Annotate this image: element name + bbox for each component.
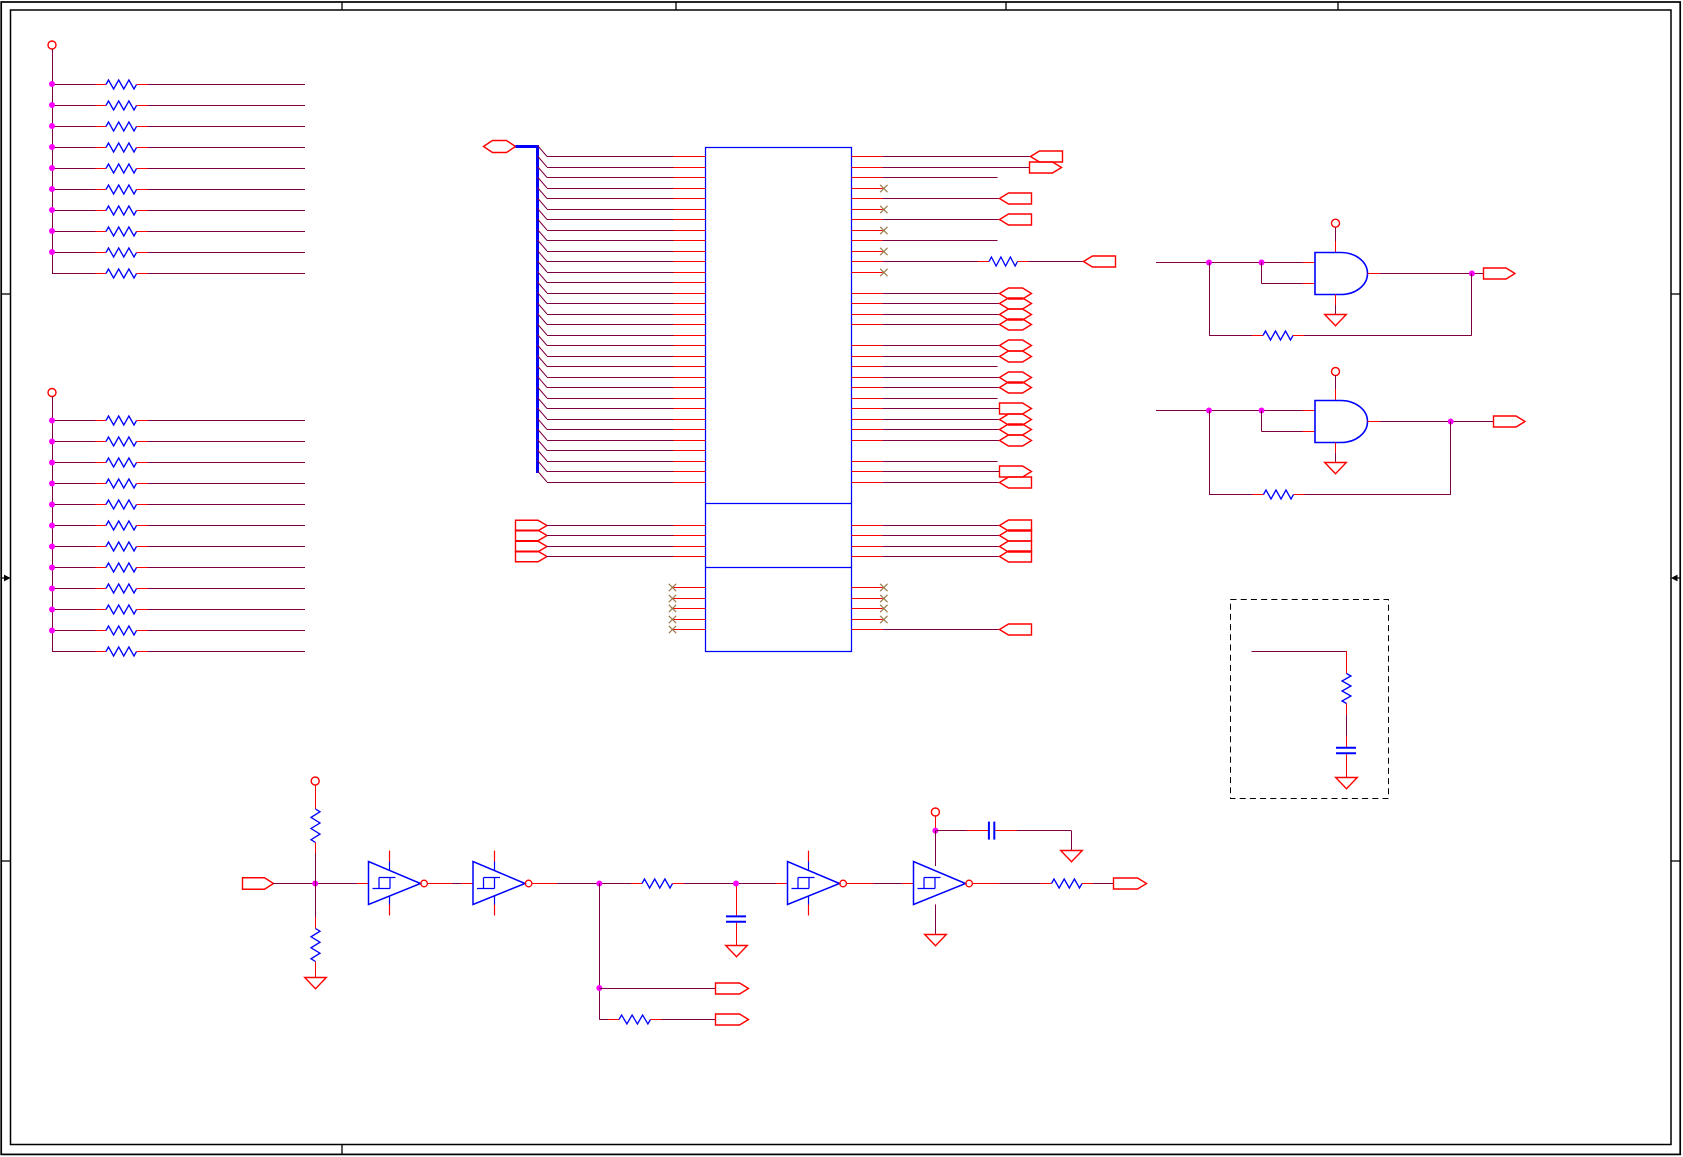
port mid-left 1 — [516, 520, 548, 531]
bus entry row 29 — [538, 440, 548, 451]
wire R31 to output port — [1093, 883, 1113, 885]
bus entry row 24 — [538, 387, 548, 398]
wire C2 to ground — [736, 923, 738, 946]
wire bank1 row 5 right — [148, 168, 306, 170]
bus entry row 14 — [538, 282, 548, 293]
pin U1 right 7 — [852, 219, 883, 221]
wire U1 bottom-right 5 — [883, 629, 1000, 631]
pin U1 left 29 — [674, 450, 706, 452]
wire U1 right pin 31 — [883, 471, 1000, 473]
port tap 1 — [716, 983, 749, 994]
pin U1 left 4 — [674, 188, 706, 190]
wire U1 left pin 17 — [547, 324, 674, 326]
no-connect U1 bottom-left 5 — [669, 626, 676, 633]
wire U1 left pin 29 — [547, 450, 674, 452]
resistor R9 — [96, 248, 148, 257]
wire U1 right pin 1 — [883, 156, 1031, 158]
bus B1 — [516, 145, 540, 473]
wire U1 right pin 27 — [883, 429, 1000, 431]
junction bank1 row 2 — [49, 102, 55, 108]
resistor R17 — [96, 542, 148, 551]
junction bank1 row 4 — [49, 144, 55, 150]
port right row 26 (bidir) — [1000, 414, 1032, 425]
resistor R1 — [96, 80, 148, 89]
pin U1 mid-left 3 — [674, 546, 706, 548]
wire mid-left 1 — [547, 525, 674, 527]
pin U1 right 16 — [852, 314, 883, 316]
wire U1 left pin 22 — [547, 377, 674, 379]
port right row 2 — [1030, 162, 1062, 173]
port bottom-right — [1000, 624, 1032, 635]
wire U2B to ground — [1335, 453, 1337, 463]
pin U1 bottom-left 3 — [674, 608, 706, 610]
resistor R4 — [96, 143, 148, 152]
bus entry row 17 — [538, 314, 548, 325]
bus entry row 5 — [538, 188, 548, 199]
pin U1 left 32 — [674, 482, 706, 484]
wire mid-left 2 — [547, 535, 674, 537]
wire U1 left pin 10 — [547, 251, 674, 253]
junction bank2 row 8 — [49, 565, 55, 571]
port right row 11 — [1084, 256, 1116, 267]
junction bank2 row 11 — [49, 628, 55, 634]
wire U1 left pin 2 — [547, 167, 674, 169]
pin U1 right 32 — [852, 482, 883, 484]
bus entry row 16 — [538, 303, 548, 314]
op-amp U2B (AND gate) — [1315, 401, 1368, 443]
pin U1 right 25 — [852, 408, 883, 410]
wire bank2 row 10 left — [52, 609, 96, 611]
inverter U3D (schmitt) — [914, 862, 973, 905]
wire U2B output net — [1380, 421, 1493, 423]
bus entry row 32 — [538, 471, 548, 482]
wire U1 left pin 7 — [547, 219, 674, 221]
pin U1 left 10 — [674, 251, 706, 253]
wire bank2 row 9 right — [148, 588, 306, 590]
pin U1 left 31 — [674, 471, 706, 473]
wire U1 right pin 26 — [883, 419, 1000, 421]
junction bank1 row 9 — [49, 249, 55, 255]
ground GND3 — [1336, 778, 1358, 789]
ground GND7 — [925, 935, 947, 946]
wire U1 left pin 28 — [547, 440, 674, 442]
bus entry row 30 — [538, 450, 548, 461]
pin U1 bottom-right 3 — [852, 608, 883, 610]
bus entry row 4 — [538, 177, 548, 188]
wire U1 left pin 11 — [547, 261, 674, 263]
wire U2A input net — [1156, 262, 1303, 264]
junction bank2 row 10 — [49, 607, 55, 613]
wire bank2 row 2 right — [148, 441, 306, 443]
power pin VCC1 — [48, 41, 56, 49]
pin U1 mid-left 2 — [674, 535, 706, 537]
wire bank2 row 7 left — [52, 546, 96, 548]
wire node to R28 — [315, 884, 317, 918]
pin U2B input 2 — [1303, 431, 1316, 433]
wire R27 to node — [315, 854, 317, 884]
pin U3D output — [973, 883, 1000, 885]
wire U2A to ground — [1335, 305, 1337, 315]
wire bank2 row 11 right — [148, 630, 306, 632]
resistor R12 — [96, 437, 148, 446]
wire R23 to port — [1029, 261, 1084, 263]
pin U1 left 14 — [674, 293, 706, 295]
resistor R24 — [1252, 331, 1304, 340]
port mid-left 4 — [516, 551, 548, 562]
pin U1 right 9 — [852, 240, 883, 242]
wire bank2 row 12 right — [148, 651, 306, 653]
pin U1 right 31 — [852, 471, 883, 473]
port right row 28 (bidir) — [1000, 435, 1032, 446]
bus entry row 2 — [538, 156, 548, 167]
wire bank2 row 8 right — [148, 567, 306, 569]
wire bank2 row 1 right — [148, 420, 306, 422]
wire bank2 row 2 left — [52, 441, 96, 443]
resistor R3 — [96, 122, 148, 131]
pin U1 left 23 — [674, 387, 706, 389]
pin U3C input — [776, 883, 788, 885]
wire U1 left pin 3 — [547, 177, 674, 179]
junction bank2 row 4 — [49, 481, 55, 487]
pin U3D input — [902, 883, 914, 885]
pin U1 right 11 — [852, 261, 883, 263]
wire U1 right pin 23 — [883, 387, 1000, 389]
pin U1 left 9 — [674, 240, 706, 242]
pin U1 left 25 — [674, 408, 706, 410]
pin U1 left 19 — [674, 345, 706, 347]
pin U1 mid-right 2 — [852, 535, 883, 537]
pin U1 left 13 — [674, 282, 706, 284]
junction U2A output — [1469, 271, 1475, 277]
power pin VCC6 — [931, 808, 939, 816]
pin U1 bottom-left 4 — [674, 619, 706, 621]
wire bank1 row 9 right — [148, 252, 306, 254]
wire U2A second input — [1262, 263, 1303, 284]
wire mid-right 2 — [883, 535, 1000, 537]
wire bank2 row 1 left — [52, 420, 96, 422]
junction bank2 row 3 — [49, 460, 55, 466]
wire mid-right 4 — [883, 556, 1000, 558]
wire bank2 row 5 right — [148, 504, 306, 506]
power pin VCC4 — [1332, 368, 1340, 376]
bus entry row 18 — [538, 324, 548, 335]
wire U2A output net — [1380, 273, 1483, 275]
wire U1 left pin 9 — [547, 240, 674, 242]
junction U2B input B — [1259, 408, 1265, 414]
wire bank2 row 6 right — [148, 525, 306, 527]
pin U1 right 3 — [852, 177, 883, 179]
capacitor C3 — [989, 822, 994, 840]
wire bank1 row 7 right — [148, 210, 306, 212]
wire U1 left pin 23 — [547, 387, 674, 389]
junction chain input node — [312, 881, 318, 887]
no-connect U1 bottom-right 1 — [880, 584, 887, 591]
wire U1 right pin 30 — [883, 461, 998, 463]
pin U1 left 18 — [674, 335, 706, 337]
inverter U3B (schmitt) — [473, 851, 532, 916]
resistor R5 — [96, 164, 148, 173]
wire bank1 row 1 left — [52, 84, 96, 86]
pin U2A ground — [1335, 295, 1337, 306]
wire U1 right pin 22 — [883, 377, 1000, 379]
wire bank1 row 6 right — [148, 189, 306, 191]
pin U1 left 8 — [674, 230, 706, 232]
junction bank2 row 1 — [49, 418, 55, 424]
junction U2A input A — [1206, 260, 1212, 266]
port right row 22 (bidir) — [1000, 372, 1032, 383]
capacitor C2 — [726, 916, 746, 921]
wire bank1 row 5 left — [52, 168, 96, 170]
wire U1 left pin 31 — [547, 471, 674, 473]
bus entry row 19 — [538, 335, 548, 346]
ground GND2 — [1325, 463, 1347, 474]
pin U3A output — [428, 883, 453, 885]
wire bank1 row 10 right — [148, 273, 306, 275]
wire U2A feedback right — [1304, 274, 1472, 336]
pin U1 left 27 — [674, 429, 706, 431]
wire U1 left pin 6 — [547, 209, 674, 211]
wire mid-left 3 — [547, 546, 674, 548]
wire U3A to U3B — [452, 883, 462, 885]
wire U1 left pin 8 — [547, 230, 674, 232]
wire bank2 row 7 right — [148, 546, 306, 548]
junction U2B output — [1448, 419, 1454, 425]
pin U1 right 14 — [852, 293, 883, 295]
bus entry row 31 — [538, 461, 548, 472]
wire U1 right pin 15 — [883, 303, 1000, 305]
pin U1 right 27 — [852, 429, 883, 431]
wire bank2 row 6 left — [52, 525, 96, 527]
wire U1 left pin 20 — [547, 356, 674, 358]
bus entry row 6 — [538, 198, 548, 209]
wire bank1 row 8 right — [148, 231, 306, 233]
port right row 25 — [1000, 403, 1032, 414]
resistor R20 — [96, 605, 148, 614]
power pin VCC5 — [311, 777, 319, 785]
resistor R23 — [978, 257, 1029, 266]
pin U1 bottom-left 5 — [674, 629, 706, 631]
pin U2B ground — [1335, 443, 1337, 453]
pin U1 left 24 — [674, 398, 706, 400]
wire C1 to ground — [1346, 754, 1348, 777]
port right row 14 (bidir) — [1000, 288, 1032, 299]
pin U1 right 12 — [852, 272, 883, 274]
bus entry row 20 — [538, 345, 548, 356]
pin U1 right 19 — [852, 345, 883, 347]
wire U3D to R31 — [1000, 883, 1041, 885]
bus entry row 7 — [538, 209, 548, 220]
resistor R15 — [96, 500, 148, 509]
port right row 1 — [1031, 151, 1063, 162]
port mid-left 2 — [516, 530, 548, 541]
junction node C — [733, 881, 739, 887]
port chain input — [243, 878, 274, 890]
bus entry row 10 — [538, 240, 548, 251]
wire U1 left pin 24 — [547, 398, 674, 400]
port U2A output — [1484, 268, 1516, 279]
wire U3C to U3D — [874, 883, 903, 885]
pin U1 right 24 — [852, 398, 883, 400]
resistor R18 — [96, 563, 148, 572]
pin U2A input 2 — [1303, 283, 1316, 285]
wire U1 left pin 25 — [547, 408, 674, 410]
wire U1 right pin 2 — [883, 167, 1030, 169]
wire bank2 row 4 right — [148, 483, 306, 485]
wire U1 left pin 12 — [547, 272, 674, 274]
wire U1 left pin 14 — [547, 293, 674, 295]
wire U1 right pin 16 — [883, 314, 1000, 316]
wire bank2 row 3 right — [148, 462, 306, 464]
wire U1 left pin 30 — [547, 461, 674, 463]
inverter U3A (schmitt) — [369, 851, 428, 916]
wire U1 right pin 32 — [883, 482, 1000, 484]
wire U1 right pin 24 — [883, 398, 998, 400]
no-connect U1 right pin 10 — [880, 248, 887, 255]
junction bank2 row 6 — [49, 523, 55, 529]
port right row 32 — [1000, 477, 1032, 488]
junction bank1 row 7 — [49, 207, 55, 213]
pin U1 right 8 — [852, 230, 883, 232]
wire bank2 row 10 right — [148, 609, 306, 611]
port U2B output — [1494, 416, 1526, 427]
pin U1 left 2 — [674, 167, 706, 169]
wire VCC1 vertical rail — [52, 49, 54, 273]
port right row 16 (bidir) — [1000, 309, 1032, 320]
pin U1 right 6 — [852, 209, 883, 211]
resistor R13 — [96, 458, 148, 467]
resistor R26 — [1342, 663, 1351, 715]
pin U2B input 1 — [1303, 410, 1316, 412]
port mid-right 1 — [1000, 520, 1032, 531]
pin U1 right 4 — [852, 188, 883, 190]
wire bank2 row 8 left — [52, 567, 96, 569]
bus entry row 27 — [538, 419, 548, 430]
wire U1 right pin 11 to R23 — [883, 261, 979, 263]
wire U1 left pin 15 — [547, 303, 674, 305]
pin U1 left 1 — [674, 156, 706, 158]
pin U1 right 23 — [852, 387, 883, 389]
pin U1 mid-right 3 — [852, 546, 883, 548]
wire U1 left pin 18 — [547, 335, 674, 337]
no-connect U1 bottom-left 3 — [669, 605, 676, 612]
wire bank2 row 5 left — [52, 504, 96, 506]
resistor R10 — [96, 269, 148, 278]
pin U1 right 5 — [852, 198, 883, 200]
wire U1 left pin 21 — [547, 366, 674, 368]
wire U2B second input — [1262, 411, 1303, 432]
pin U1 right 26 — [852, 419, 883, 421]
no-connect U1 right pin 6 — [880, 206, 887, 213]
wire U1 right pin 21 — [883, 366, 998, 368]
wire VCC5 to R27 — [315, 785, 317, 809]
port right row 15 (bidir) — [1000, 298, 1032, 309]
wire U3B to node B — [557, 883, 631, 885]
pin U1 left 16 — [674, 314, 706, 316]
pin U1 left 20 — [674, 356, 706, 358]
resistor R25 — [1253, 490, 1305, 499]
no-connect U1 bottom-right 3 — [880, 605, 887, 612]
bus entry row 22 — [538, 366, 548, 377]
pin U1 mid-left 4 — [674, 556, 706, 558]
junction bank1 row 3 — [49, 123, 55, 129]
no-connect U1 right pin 12 — [880, 269, 887, 276]
pin U1 left 5 — [674, 198, 706, 200]
wire U1 right pin 7 — [883, 219, 1000, 221]
port right row 20 (bidir) — [1000, 351, 1032, 362]
wire U2B input net — [1156, 410, 1303, 412]
pin U3A input — [357, 883, 369, 885]
wire bank2 row 9 left — [52, 588, 96, 590]
resistor R19 — [96, 584, 148, 593]
bus entry row 26 — [538, 408, 548, 419]
wire mid-right 1 — [883, 525, 1000, 527]
port right row 23 (bidir) — [1000, 382, 1032, 393]
port right row 27 (bidir) — [1000, 424, 1032, 435]
wire U1 left pin 5 — [547, 198, 674, 200]
wire bank2 row 11 left — [52, 630, 96, 632]
no-connect U1 bottom-left 4 — [669, 616, 676, 623]
no-connect U1 bottom-left 1 — [669, 584, 676, 591]
pin U1 left 7 — [674, 219, 706, 221]
dashed option box — [1231, 600, 1389, 799]
bus entry row 21 — [538, 356, 548, 367]
resistor R22 — [96, 647, 148, 656]
junction bank2 row 5 — [49, 502, 55, 508]
IC U1 body — [706, 148, 852, 652]
port mid-right 3 — [1000, 541, 1032, 552]
pin U1 bottom-left 2 — [674, 598, 706, 600]
pin U1 left 15 — [674, 303, 706, 305]
resistor R27 (pull-up) — [311, 809, 320, 854]
junction node B tap — [596, 985, 602, 991]
wire U1 left pin 16 — [547, 314, 674, 316]
wire bank1 row 6 left — [52, 189, 96, 191]
pin U1 mid-left 1 — [674, 525, 706, 527]
resistor R16 — [96, 521, 148, 530]
pin U2B output — [1368, 421, 1381, 423]
pin U1 bottom-right 5 — [852, 629, 883, 631]
wire U1 right pin 14 — [883, 293, 1000, 295]
wire U1 left pin 26 — [547, 419, 674, 421]
port right row 31 — [1000, 466, 1032, 477]
wire bank1 row 4 right — [148, 147, 306, 149]
pin U1 bottom-right 1 — [852, 587, 883, 589]
no-connect U1 right pin 8 — [880, 227, 887, 234]
pin U1 left 21 — [674, 366, 706, 368]
op-amp U2A (AND gate) — [1315, 253, 1368, 295]
bus entry row 1 — [538, 146, 548, 157]
wire node C to C2 — [736, 886, 738, 915]
wire R26 to C1 — [1346, 715, 1348, 748]
wire U1 left pin 4 — [547, 188, 674, 190]
wire node B down — [599, 884, 601, 1020]
wire R30 to port — [662, 1019, 716, 1021]
port right row 19 (bidir) — [1000, 340, 1032, 351]
wire U1 right pin 28 — [883, 440, 1000, 442]
bus entry row 15 — [538, 293, 548, 304]
resistor R7 — [96, 206, 148, 215]
junction bank1 row 8 — [49, 228, 55, 234]
bus entry row 25 — [538, 398, 548, 409]
resistor R31 — [1041, 879, 1094, 888]
junction U2A input B — [1259, 260, 1265, 266]
pin U2A power — [1335, 241, 1337, 253]
wire U1 right pin 20 — [883, 356, 1000, 358]
port mid-right 4 — [1000, 551, 1032, 562]
pin U3B output — [532, 883, 557, 885]
port mid-right 2 — [1000, 530, 1032, 541]
pin U2A output — [1368, 273, 1381, 275]
